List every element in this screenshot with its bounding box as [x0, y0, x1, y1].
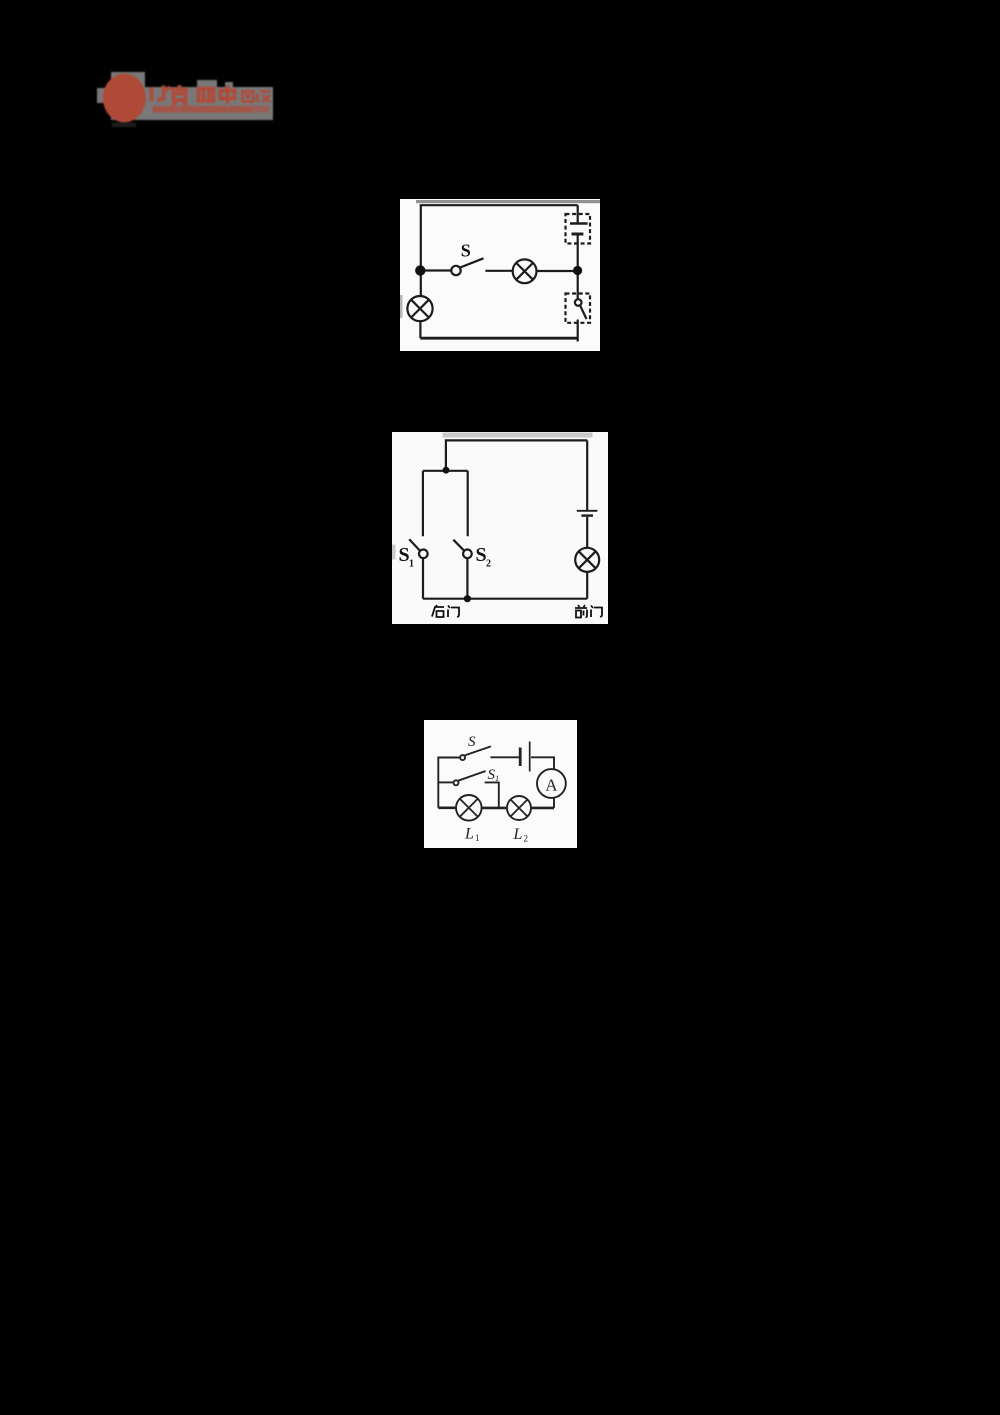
svg-text:1: 1	[495, 773, 499, 783]
wire right upper to battery	[577, 205, 579, 223]
switch S1	[453, 780, 458, 785]
red seal circle	[103, 74, 146, 123]
svg-text:1: 1	[475, 833, 480, 843]
wire left branch down to lamp	[420, 271, 422, 297]
lamp X1 (middle)	[513, 259, 537, 283]
wire between lamps	[481, 806, 506, 809]
lamp L1	[456, 795, 482, 821]
lamp (front door bell)	[575, 547, 599, 571]
wire S1 to drop	[484, 782, 498, 808]
scan smudge top	[442, 432, 592, 437]
wire S2 branch upper	[466, 470, 468, 536]
wire parallel header	[422, 469, 467, 471]
red wordmark 北京四中	[152, 85, 235, 106]
lamp L2	[507, 796, 531, 820]
svg-text:www.etiantian.com: www.etiantian.com	[152, 105, 253, 116]
battery B1 in dashed box	[566, 214, 591, 244]
node A	[415, 265, 425, 275]
wire to battery	[490, 756, 519, 758]
label 前门 (front door)	[575, 605, 602, 618]
svg-text:A: A	[545, 775, 558, 794]
wire second branch	[438, 781, 453, 783]
wire switch box to bottom	[577, 320, 579, 342]
scan smudge top	[416, 200, 600, 203]
wire ammeter to bottom	[553, 797, 555, 807]
node bottom junction	[463, 595, 470, 602]
node top junction	[442, 466, 449, 473]
switch S	[451, 266, 460, 275]
wire S1 branch lower	[421, 558, 423, 599]
wire left lamp to bottom	[419, 321, 421, 338]
tiny dark sub-caption	[112, 123, 136, 128]
switch S2	[453, 539, 464, 550]
wire bottom	[422, 597, 586, 599]
ammeter A1	[537, 769, 566, 798]
battery B	[518, 747, 521, 766]
gray translucent backdrop blocks	[111, 72, 145, 120]
small 网校	[243, 92, 271, 103]
wire right down to battery	[586, 440, 588, 510]
battery B	[576, 509, 597, 511]
svg-text:S: S	[475, 544, 486, 566]
wire lamp to node B	[537, 270, 578, 272]
wire lamp to bottom	[586, 571, 588, 598]
wire S2 branch lower	[466, 558, 468, 599]
svg-text:S: S	[398, 544, 409, 566]
wire top	[445, 440, 586, 470]
wire battery to corner	[531, 757, 554, 769]
wire bottom	[438, 806, 456, 809]
wire L2 to ammeter leg	[531, 806, 554, 809]
red tagline bar	[153, 106, 269, 113]
lamp X2 (left)	[407, 296, 432, 321]
switch S2 in dashed box	[566, 294, 591, 323]
svg-text:1: 1	[409, 558, 414, 569]
switch S	[460, 755, 465, 760]
label 后门 (back door)	[432, 605, 459, 617]
wire battery to node B	[577, 234, 579, 271]
node B	[573, 266, 582, 275]
svg-text:2: 2	[486, 558, 491, 569]
wire battery to lamp	[586, 517, 588, 548]
svg-text:S: S	[468, 734, 476, 750]
wire S1 branch upper	[421, 470, 423, 536]
svg-text:S: S	[461, 241, 471, 261]
wire switch to lamp	[485, 270, 512, 272]
wire left vertical	[438, 757, 460, 807]
wire top	[421, 205, 578, 270]
logo: school seal + red wordmark	[95, 68, 280, 132]
svg-text:L: L	[512, 826, 522, 843]
svg-text:L: L	[464, 825, 474, 842]
wire bottom	[420, 337, 577, 340]
switch S1	[409, 539, 420, 551]
wire middle branch	[420, 269, 451, 271]
wire node B down to switch box	[577, 271, 579, 300]
svg-text:2: 2	[523, 833, 528, 843]
